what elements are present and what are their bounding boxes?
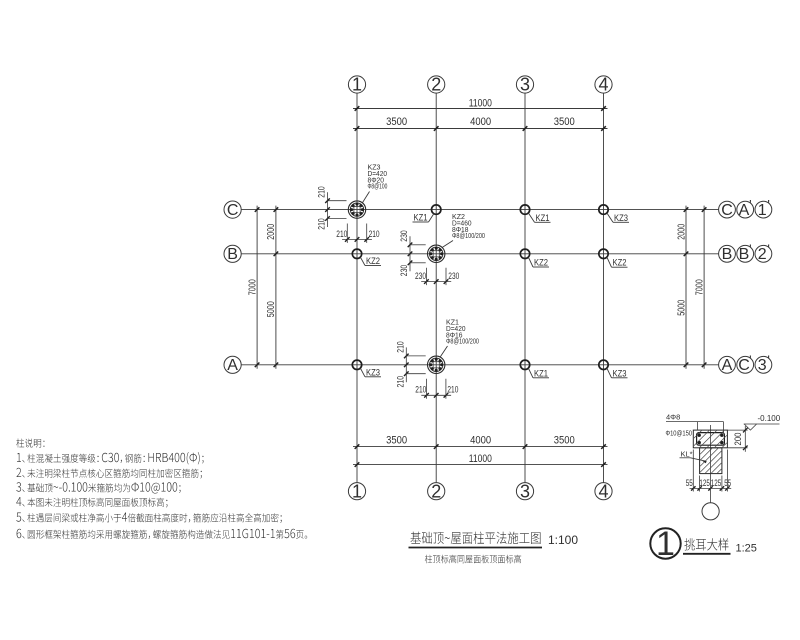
label KZ2 for column B-3 [528,257,549,267]
svg-text:125: 125 [711,478,722,488]
svg-text:3500: 3500 [554,116,575,128]
grid axis line A (horizontal) [241,364,718,366]
svg-text:210: 210 [317,218,327,230]
dim tick [702,207,707,212]
svg-text:7000: 7000 [693,279,705,295]
notes line: 柱说明： [16,439,44,448]
spec text KZ1 D=420 8Φ16 Φ8@100/200 with leader [440,318,479,358]
axis bubble 3 bottom [516,483,533,500]
svg-text:4000: 4000 [470,116,491,128]
dim tick [601,106,606,111]
dim tick [601,462,606,467]
notes line: 3、基础顶~-0.100米箍 [16,482,180,493]
axis bubble 4 bottom [595,483,612,500]
svg-text:5000: 5000 [265,301,277,317]
dim tick [434,126,439,131]
svg-text:C: C [721,202,733,219]
svg-text:KZ2: KZ2 [613,258,627,268]
detail ear outline rect [693,430,727,448]
svg-text:': ' [767,197,769,212]
svg-text:11000: 11000 [469,97,492,109]
detail bottom dims 55/125/125/55 [686,450,731,492]
detail column below ear (hatched) [700,448,722,474]
svg-text:210: 210 [336,229,347,240]
dim tick [355,106,360,111]
svg-text:A: A [227,357,238,374]
dim tick [684,207,689,212]
spec text KZ3 D=420 8Φ20 Φ8@100 with leader [363,163,388,203]
dim line left total 7000 [256,206,258,369]
dim line left segments [275,206,277,369]
svg-text:2000: 2000 [675,224,687,240]
svg-text:C: C [227,202,239,219]
svg-text:2000: 2000 [265,224,277,240]
svg-text:11000: 11000 [469,453,492,465]
dim tick [255,207,260,212]
label KZ2 for column B-1 [360,256,381,266]
svg-text:A: A [722,357,733,374]
axis bubble C left [224,201,241,218]
svg-text:2: 2 [431,481,441,501]
label KZ1 for column A-3 [528,368,549,378]
detail center line [710,425,712,474]
svg-text:B: B [722,246,733,263]
svg-text:230: 230 [399,265,409,277]
svg-text:KZ1: KZ1 [536,213,550,223]
title underline [409,547,543,549]
svg-text:': ' [749,352,751,367]
svg-text:4: 4 [598,481,608,501]
axis bubble C right [719,201,736,218]
label KZ3 for column A-4 [607,368,628,378]
svg-text:': ' [749,197,751,212]
svg-text:210: 210 [369,229,380,240]
axis bubble 1' right [755,201,772,218]
axis bubble A' right [737,201,754,218]
grid axis line 1 (vertical) [356,93,358,483]
axis bubble 2' right [755,245,772,262]
label KZ1 for column C-3 [528,213,550,223]
svg-text:KZ3: KZ3 [614,213,628,223]
svg-text:55: 55 [686,478,693,488]
axis bubble C' right [737,356,754,373]
svg-text:230: 230 [448,271,459,282]
detail title 挑耳大样 [684,538,728,550]
axis bubble B right [719,245,736,262]
axis bubble A right [719,356,736,373]
svg-text:KZ2: KZ2 [366,256,380,266]
column KZ3 at C-1 (large, with rebar) [348,201,365,218]
svg-text:4000: 4000 [470,435,491,447]
svg-text:3: 3 [520,481,530,501]
column KZ3 at A-4 [599,360,608,369]
svg-text:Φ10@150: Φ10@150 [666,430,693,437]
svg-text:2: 2 [758,246,767,263]
dim tick [274,207,279,212]
dim line right total 7000 [703,206,705,369]
dim tick [274,252,279,257]
label KZ1 for column C-2 [413,213,434,223]
detail hatch lines [694,431,727,474]
dim line top total 11000 [353,108,608,110]
svg-text:KZ3: KZ3 [366,367,380,377]
dim tick [684,363,689,368]
svg-text:210: 210 [395,376,405,388]
grid axis line 3 (vertical) [524,93,526,483]
local dims 210/210 around column A-2 [395,341,458,399]
svg-text:125: 125 [699,478,710,488]
axis bubble 1 top [348,76,365,93]
spec text KZ2 D=460 8Φ18 Φ8@100/200 with leader [443,212,486,247]
detail title underline [683,553,731,555]
detail: corbel (挑耳) section [0,0,1,1]
dim tick [355,462,360,467]
axis bubble 1 bottom [348,483,365,500]
dim line top segments [353,128,608,130]
column KZ3 at C-4 [599,205,608,214]
column KZ1 at A-3 [520,360,529,369]
svg-text:55: 55 [724,478,731,488]
column KZ2 at B-2 (large, with rebar) [428,245,445,262]
detail empty bubble below [702,503,719,520]
svg-text:KL*: KL* [681,449,693,458]
notes line: 6、圆形框架柱箍筋均采用螺旋 [17,529,308,539]
notes line: 2、未注明梁柱节点核心区箍筋 [17,468,202,479]
svg-text:1:25: 1:25 [736,543,757,555]
column KZ2 at B-3 [520,249,529,258]
svg-text:B: B [227,246,238,263]
svg-text:5000: 5000 [675,300,687,316]
svg-text:KZ1: KZ1 [534,368,548,378]
detail level mark -0.100 [744,414,781,430]
svg-text:3500: 3500 [554,435,575,447]
axis bubble A left [224,356,241,373]
detail label 4Φ8 with leader [666,413,724,434]
svg-text:-0.100: -0.100 [758,414,781,423]
axis bubble B' right [737,245,754,262]
svg-text:KZ1: KZ1 [414,213,428,223]
detail label KL* with leader arrow [680,449,707,463]
label KZ3 for column A-1 [360,367,381,377]
detail dim 200 (vertical right) [727,426,747,452]
grid axis line C (horizontal) [241,209,718,211]
svg-text:210: 210 [317,186,327,198]
label KZ3 for column C-4 [607,213,629,223]
svg-text:210: 210 [415,385,426,396]
axis bubble 3' right [755,356,772,373]
svg-text:': ' [767,352,769,367]
svg-text:4Φ8: 4Φ8 [666,413,680,422]
column KZ1 at C-2 [432,205,441,214]
svg-text:230: 230 [399,230,409,242]
dim tick [601,444,606,449]
subtitle 柱顶标高同屋面板顶面标高 [425,555,521,564]
dim tick [355,126,360,131]
svg-text:3: 3 [520,75,530,95]
grid axis line 2 (vertical) [435,93,437,483]
notes line: 5、柱遇层间梁或柱净高小于4 [16,513,282,524]
svg-text:210: 210 [447,385,458,396]
notes line: 1、柱混凝土强度等级：C30 [17,452,204,464]
dim tick [702,363,707,368]
label KZ2 for column B-4 [607,257,628,268]
svg-text:7000: 7000 [246,279,258,295]
axis bubble 2 top [428,76,445,93]
grid axis line B (horizontal) [241,253,718,255]
svg-text:Φ8@100/200: Φ8@100/200 [452,231,485,240]
local dims 210/210 around column C-1 [317,186,380,243]
dim tick [601,126,606,131]
column KZ3 at A-1 [352,360,361,369]
svg-text:A: A [739,202,750,219]
drawing title 基础顶~屋面柱平法施工图 [411,532,541,544]
dim line bottom segments [353,446,608,448]
dim tick [255,363,260,368]
svg-text:C: C [738,357,750,374]
svg-text:3500: 3500 [386,116,407,128]
dim tick [434,444,439,449]
detail stirrup rect with corner bars [697,433,725,446]
dim line right segments [685,206,687,369]
local dims 230/230 around column B-2 [399,230,459,285]
dim tick [523,444,528,449]
svg-text:4: 4 [598,75,608,95]
svg-text:': ' [767,241,769,256]
axis bubble 4 top [595,76,612,93]
notes line: 4、本图未注明柱顶标高同屋面 [16,497,167,508]
svg-text:200: 200 [733,432,743,445]
svg-text:3500: 3500 [386,435,407,447]
svg-text:2: 2 [431,75,441,95]
svg-text:3: 3 [758,357,767,374]
svg-text:210: 210 [395,341,405,353]
svg-text:230: 230 [415,271,426,282]
column KZ2 at B-4 [599,249,608,258]
svg-text:1: 1 [758,202,767,219]
column KZ1 at C-3 [520,205,529,214]
axis bubble 3 top [516,76,533,93]
dim tick [274,363,279,368]
column KZ2 at B-1 [352,249,361,258]
svg-text:1: 1 [656,525,675,563]
axis bubble 2 bottom [428,483,445,500]
svg-text:1:100: 1:100 [548,533,578,547]
svg-text:': ' [749,241,751,256]
detail section line down to bubble [710,474,712,503]
svg-text:1: 1 [352,481,362,501]
svg-text:KZ2: KZ2 [534,258,548,268]
grid axis line 4 (vertical) [603,93,605,483]
svg-text:Φ8@100/200: Φ8@100/200 [446,337,479,346]
column KZ1 at A-2 (large, with rebar) [428,356,445,373]
dim tick [355,444,360,449]
svg-text:KZ3: KZ3 [613,368,627,378]
svg-text:Φ8@100: Φ8@100 [368,182,388,191]
dim tick [684,252,689,257]
detail title bubble 1 [650,528,680,558]
axis bubble B left [224,245,241,262]
svg-text:B: B [739,246,750,263]
svg-text:1: 1 [352,75,362,95]
dim line bottom total 11000 [353,464,608,466]
dim tick [523,126,528,131]
